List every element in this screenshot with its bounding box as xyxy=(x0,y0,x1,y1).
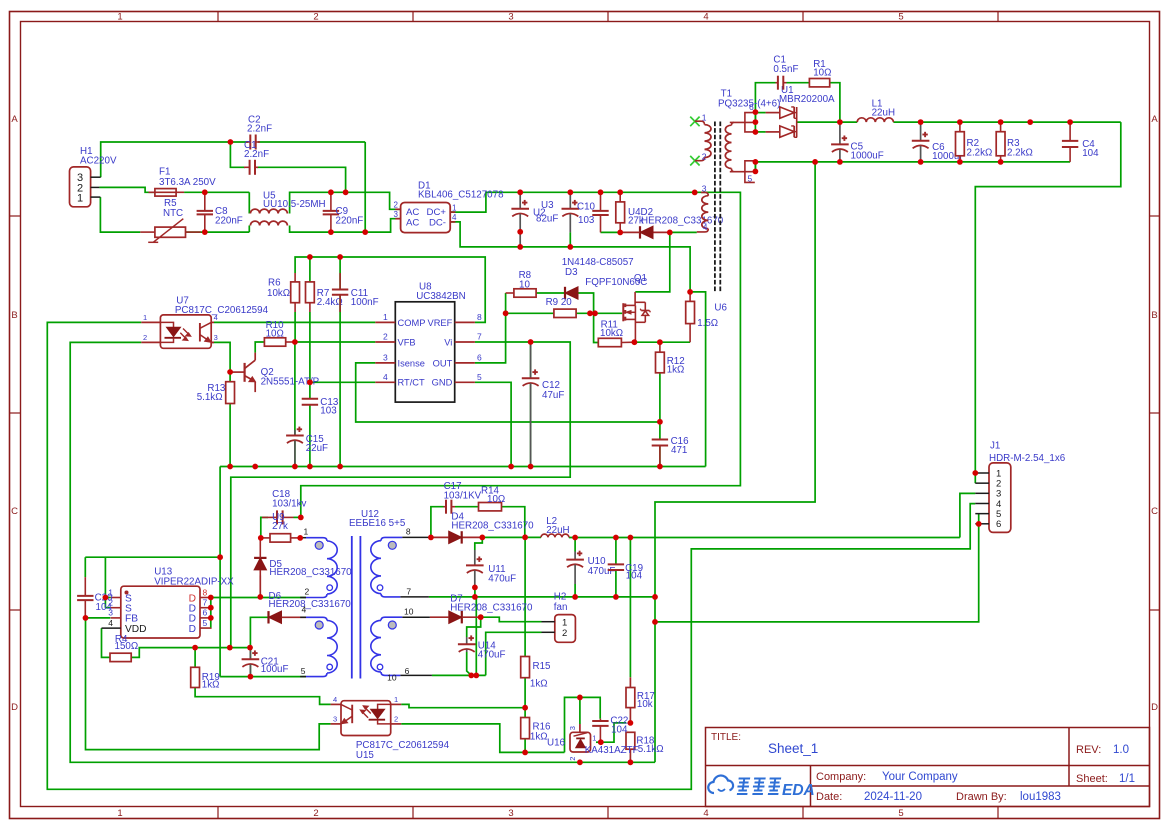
wire U16 ref column xyxy=(579,697,581,724)
svg-text:2: 2 xyxy=(143,333,147,342)
capacitor C11 100nF xyxy=(339,273,341,290)
connector J1 HDR-M-2.54_1x6 xyxy=(989,463,1011,533)
wire VFB line xyxy=(295,341,375,343)
svg-text:7: 7 xyxy=(406,586,411,596)
wire C21 / U12 pin5 rail xyxy=(220,676,306,678)
transistor Q2 2N5551 xyxy=(244,363,246,382)
svg-text:2: 2 xyxy=(562,628,567,639)
svg-text:2: 2 xyxy=(305,587,310,597)
junction dots secondary output area xyxy=(428,535,434,541)
svg-text:lou1983: lou1983 xyxy=(1020,791,1061,803)
wire Vcc line U8 pin7 to aux supply xyxy=(231,342,570,648)
svg-text:1000uF: 1000uF xyxy=(851,150,884,161)
junction dots controller area xyxy=(503,310,509,316)
svg-text:22uF: 22uF xyxy=(306,443,328,454)
svg-text:VIPER22ADIP-XX: VIPER22ADIP-XX xyxy=(154,576,234,587)
wire GND drop to C21 rail xyxy=(219,467,221,677)
T1 primary winding pins 3-4 xyxy=(701,192,708,195)
svg-text:3: 3 xyxy=(214,333,218,342)
svg-text:5: 5 xyxy=(748,174,753,184)
svg-text:103/1KV: 103/1KV xyxy=(444,491,482,502)
diode D3 1N4148 xyxy=(564,287,566,299)
wire AC line top rail with C2/C1 branches xyxy=(101,142,248,177)
wire R15 column xyxy=(524,537,526,656)
svg-text:C: C xyxy=(11,506,18,517)
svg-text:MBR20200A: MBR20200A xyxy=(779,94,835,105)
dual diode U1 MBR20200A xyxy=(780,107,794,118)
svg-text:3: 3 xyxy=(333,715,337,724)
svg-text:D: D xyxy=(11,702,18,713)
svg-text:103/1kv: 103/1kv xyxy=(272,498,306,509)
svg-text:1: 1 xyxy=(117,808,122,819)
svg-text:104: 104 xyxy=(626,570,643,581)
U12 winding pin4-5 xyxy=(300,616,306,618)
wire AC neutral rail to bridge xyxy=(100,197,140,232)
svg-text:10k: 10k xyxy=(637,699,653,710)
wire U15 pin1 to divider tap xyxy=(401,704,525,707)
svg-text:VDD: VDD xyxy=(125,624,147,635)
resistor R8 10 xyxy=(506,292,514,294)
junction dots T1 secondary / output filter xyxy=(753,109,759,115)
svg-text:5: 5 xyxy=(898,12,903,23)
wire control GND rail xyxy=(220,466,705,468)
wire secondary GND drop xyxy=(655,162,815,762)
shunt regulator U16 KA431 xyxy=(570,732,591,752)
wire U7 pin3 to R13 xyxy=(211,342,230,381)
svg-text:4: 4 xyxy=(703,808,708,819)
wire R7 column xyxy=(309,257,311,282)
svg-text:U6: U6 xyxy=(714,302,727,313)
junction dots TL431 / opto area xyxy=(522,705,528,711)
connector H1 AC220V xyxy=(70,167,91,207)
svg-text:103: 103 xyxy=(578,215,595,226)
JLCEDA logo xyxy=(708,776,733,793)
svg-text:0.5nF: 0.5nF xyxy=(773,64,798,75)
svg-text:6: 6 xyxy=(405,666,410,676)
svg-text:1kΩ: 1kΩ xyxy=(202,679,220,690)
svg-text:470uF: 470uF xyxy=(488,574,516,585)
resistor U9 27k feedback xyxy=(270,534,291,542)
svg-text:10: 10 xyxy=(387,672,397,682)
IC U13 VIPER22ADIP xyxy=(121,586,200,638)
svg-text:AC: AC xyxy=(406,207,419,218)
svg-text:1kΩ: 1kΩ xyxy=(530,731,548,742)
svg-text:2.2kΩ: 2.2kΩ xyxy=(1007,148,1033,159)
wire R13 bottom xyxy=(229,404,231,467)
svg-text:1kΩ: 1kΩ xyxy=(667,364,685,375)
wire C17 R14 snubber xyxy=(431,507,444,538)
wire net DC- xyxy=(450,222,690,292)
capacitor C20 104 xyxy=(84,577,86,596)
IC U8 UC3842BN xyxy=(395,302,454,402)
svg-text:PC817C_C20612594: PC817C_C20612594 xyxy=(175,305,269,316)
T1 core xyxy=(714,122,716,292)
wire U1 anode leads xyxy=(755,112,765,114)
svg-text:1: 1 xyxy=(143,313,147,322)
svg-text:1kΩ: 1kΩ xyxy=(530,678,548,689)
svg-text:Sheet_1: Sheet_1 xyxy=(768,741,818,756)
svg-text:Drawn By:: Drawn By: xyxy=(956,791,1007,803)
svg-text:6: 6 xyxy=(996,519,1001,530)
wire U13 D pins tie / U12 pin2 xyxy=(211,597,306,599)
svg-text:150Ω: 150Ω xyxy=(115,641,139,652)
svg-text:2: 2 xyxy=(313,808,318,819)
capacitor C19 104 xyxy=(615,563,617,565)
svg-text:2: 2 xyxy=(313,12,318,23)
svg-text:OUT: OUT xyxy=(433,358,453,368)
svg-text:10Ω: 10Ω xyxy=(813,67,831,78)
wire C15 column xyxy=(294,342,296,436)
svg-text:5.1kΩ: 5.1kΩ xyxy=(197,392,223,403)
svg-text:Sheet:: Sheet: xyxy=(1076,773,1108,785)
wire D7 to H2 pin1 xyxy=(481,617,542,622)
svg-text:A: A xyxy=(1151,114,1158,125)
wire AC fused rail to bridge xyxy=(99,187,154,192)
svg-text:Vi: Vi xyxy=(444,337,452,347)
svg-text:4: 4 xyxy=(703,222,708,232)
svg-text:Your Company: Your Company xyxy=(882,771,958,783)
resistor R4 150 xyxy=(110,653,131,661)
wire U13 VDD to R4 xyxy=(102,628,111,657)
U12 winding pin10-6 xyxy=(402,616,430,618)
wire +V low rail after L2 xyxy=(569,537,960,539)
svg-text:2024-11-20: 2024-11-20 xyxy=(864,791,922,803)
svg-text:10Ω: 10Ω xyxy=(487,494,505,505)
capacitor C1 0.5nF snubber xyxy=(776,82,778,84)
svg-text:1.0: 1.0 xyxy=(1113,744,1129,756)
svg-text:10: 10 xyxy=(404,606,414,616)
capacitor C9 220nF xyxy=(330,192,332,211)
svg-text:B: B xyxy=(11,310,17,321)
wire aux source rail xyxy=(85,556,220,558)
wire R19 top xyxy=(194,648,196,668)
svg-text:1: 1 xyxy=(394,695,398,704)
svg-text:1: 1 xyxy=(452,203,457,212)
thermistor R5 NTC xyxy=(140,231,155,233)
svg-text:1.5Ω: 1.5Ω xyxy=(697,318,718,329)
resistor R13 5.1k xyxy=(226,382,235,404)
resistor U6 1.5ohm sense xyxy=(689,292,691,302)
resistor R11 10k gate xyxy=(598,338,621,346)
svg-text:5: 5 xyxy=(301,666,306,676)
svg-text:UC3842BN: UC3842BN xyxy=(416,291,466,302)
inductor L2 22uH xyxy=(541,534,569,537)
svg-text:COMP: COMP xyxy=(398,318,426,328)
resistor R6 10k xyxy=(291,282,300,303)
capacitor U14 470uF xyxy=(466,637,468,644)
transistor Q1 FQPF10N60C mosfet xyxy=(622,303,624,321)
resistor U4 27k snubber xyxy=(619,192,621,202)
svg-text:47uF: 47uF xyxy=(542,390,564,401)
svg-text:KBL406_C5127078: KBL406_C5127078 xyxy=(418,190,504,201)
wire D3 to R11 xyxy=(578,293,598,343)
wire U14 bottom xyxy=(467,652,472,675)
svg-text:2.2nF: 2.2nF xyxy=(244,149,269,160)
resistor R19 1k xyxy=(191,667,200,687)
capacitor C5 1000uF xyxy=(839,122,841,144)
capacitor C13 103 xyxy=(309,398,311,400)
svg-text:22uH: 22uH xyxy=(546,525,569,536)
svg-text:8: 8 xyxy=(203,587,208,597)
wire R8/R9 node riser xyxy=(505,293,507,313)
capacitor C22 104 xyxy=(599,719,601,721)
diode D5 HER208 xyxy=(254,557,266,559)
svg-text:7: 7 xyxy=(203,598,208,608)
title block xyxy=(706,728,1150,807)
svg-text:3: 3 xyxy=(394,210,399,219)
T1 secondary winding pins 6/5 xyxy=(730,121,755,123)
svg-text:HER208_C331670: HER208_C331670 xyxy=(269,599,352,610)
svg-text:EEБE16 5+5: EEБE16 5+5 xyxy=(349,518,406,529)
wire C19 column xyxy=(615,538,617,565)
bridge rectifier D1 KBL406 xyxy=(401,203,451,233)
resistor R15 1k xyxy=(521,657,530,678)
svg-text:3: 3 xyxy=(702,183,707,193)
wire U8 OUT pin6 xyxy=(475,313,506,363)
svg-text:27k: 27k xyxy=(272,521,288,532)
svg-text:471: 471 xyxy=(671,445,687,456)
svg-text:HER208_C331670: HER208_C331670 xyxy=(641,215,724,226)
svg-text:103: 103 xyxy=(320,405,337,416)
wire R6 bottom xyxy=(294,312,296,342)
wire D6 to C21 node xyxy=(250,617,268,647)
capacitor C12 47uF xyxy=(530,342,532,379)
wire net DC+ xyxy=(301,192,741,517)
wire D5 anode column xyxy=(259,576,261,597)
svg-text:C: C xyxy=(1151,506,1158,517)
wire D7 to U14 xyxy=(467,617,481,637)
svg-text:DC+: DC+ xyxy=(427,207,447,218)
optocoupler U7 PC817C xyxy=(160,315,211,348)
resistor R3 2.2k xyxy=(1000,122,1002,132)
wire pin6 rail to H2 pin2 xyxy=(432,674,486,676)
svg-text:1: 1 xyxy=(562,618,567,629)
wire C16 bottom xyxy=(659,447,661,467)
capacitor C4 104 xyxy=(1069,122,1071,141)
wire snubber cap to 27k bottom xyxy=(601,231,621,233)
wire R12 bottom to C16 xyxy=(659,373,661,439)
wire U13 FB net to U15 pin3 xyxy=(86,617,111,619)
wire J1 pins1-2 tie xyxy=(974,473,976,483)
capacitor U2/U3 82uF bus xyxy=(519,192,521,209)
wire C11 column xyxy=(339,257,341,290)
svg-text:2: 2 xyxy=(394,715,398,724)
svg-text:GND: GND xyxy=(432,378,453,388)
wire U8 GND pin5 xyxy=(475,382,511,466)
svg-text:5: 5 xyxy=(203,618,208,628)
svg-text:10: 10 xyxy=(519,279,530,290)
resistor R18 5.1k xyxy=(626,732,635,749)
svg-text:5: 5 xyxy=(477,372,482,382)
svg-text:4: 4 xyxy=(108,618,113,628)
svg-text:1: 1 xyxy=(383,312,388,322)
svg-text:1: 1 xyxy=(592,734,596,743)
svg-text:R6: R6 xyxy=(268,277,281,288)
svg-text:100nF: 100nF xyxy=(351,297,379,308)
svg-text:A: A xyxy=(11,114,18,125)
svg-text:D: D xyxy=(189,624,196,635)
capacitor C18 103/1kv xyxy=(262,516,277,518)
svg-text:1: 1 xyxy=(77,193,83,205)
wire R9 to Q1 gate xyxy=(576,312,622,314)
resistor R1 10 xyxy=(809,79,829,87)
svg-text:3: 3 xyxy=(383,352,388,362)
junction dots control GND rail xyxy=(227,464,233,470)
svg-text:TITLE:: TITLE: xyxy=(711,732,741,743)
svg-text:4: 4 xyxy=(452,213,457,222)
capacitor U11 470uF xyxy=(474,550,476,565)
capacitor C2 2.2nF xyxy=(246,141,250,143)
wire VREF rail xyxy=(295,257,485,322)
svg-text:Date:: Date: xyxy=(816,791,842,803)
svg-text:1: 1 xyxy=(117,12,122,23)
wire R15 R16 junction xyxy=(524,678,526,718)
svg-text:4: 4 xyxy=(383,372,388,382)
wire J1 pin4 to bottom rail to opto U7 pin1 xyxy=(47,322,975,789)
T1 winding pins 1-2 with no-connect marks xyxy=(690,117,699,127)
svg-text:7: 7 xyxy=(477,332,482,342)
svg-text:82uF: 82uF xyxy=(536,213,558,224)
resistor R2 2.2k xyxy=(959,122,961,132)
resistor R16 1k xyxy=(521,718,530,739)
connector H2 fan xyxy=(555,615,576,643)
svg-text:10Ω: 10Ω xyxy=(266,328,284,339)
svg-text:EDA: EDA xyxy=(782,782,815,799)
svg-text:3: 3 xyxy=(508,808,513,819)
svg-text:HDR-M-2.54_1x6: HDR-M-2.54_1x6 xyxy=(989,453,1066,464)
svg-text:8: 8 xyxy=(406,527,411,537)
svg-text:2.2kΩ: 2.2kΩ xyxy=(967,148,993,159)
svg-text:104: 104 xyxy=(96,602,113,613)
svg-text:2: 2 xyxy=(702,152,707,162)
svg-text:Company:: Company: xyxy=(816,771,866,783)
svg-text:FQPF10N60C: FQPF10N60C xyxy=(585,277,647,288)
svg-text:3T6.3A 250V: 3T6.3A 250V xyxy=(159,177,216,188)
svg-text:R15: R15 xyxy=(533,661,552,672)
wire R19 bottom to U15 pin4 xyxy=(195,688,331,705)
wire winding center tie xyxy=(475,597,477,676)
inductor L1 22uH xyxy=(857,118,893,122)
wire R8 to D3 xyxy=(536,292,565,294)
wire TL431 anode rail from U7 pin2 xyxy=(70,342,655,762)
U12 winding pin8-7 xyxy=(402,536,431,538)
svg-text:REV:: REV: xyxy=(1076,744,1101,756)
svg-text:HER208_C331670: HER208_C331670 xyxy=(269,567,352,578)
svg-text:VREF: VREF xyxy=(428,318,453,328)
capacitor C6 1000uF xyxy=(920,122,922,141)
capacitor C10 bus xyxy=(569,192,571,209)
svg-text:220nF: 220nF xyxy=(336,216,364,227)
svg-text:4: 4 xyxy=(703,12,708,23)
wire U10 column xyxy=(574,538,576,552)
wire secondary GND to J1 pins 5-6 xyxy=(655,514,979,622)
resistor R17 10k xyxy=(626,688,635,708)
svg-text:AC: AC xyxy=(406,217,419,228)
wire R4 to aux Vcc node xyxy=(131,648,250,658)
svg-text:10kΩ: 10kΩ xyxy=(600,328,623,339)
capacitor C1 2.2nF (X-cap) xyxy=(244,166,250,168)
svg-text:HER208_C331670: HER208_C331670 xyxy=(450,602,533,613)
diode D2 HER208 xyxy=(639,226,641,238)
wire U15 pin2 to R16 bottom and TL431 ref xyxy=(401,724,564,753)
capacitor C17 103/1KV xyxy=(444,506,447,508)
wire C21 column xyxy=(249,648,251,660)
svg-text:Isense: Isense xyxy=(398,358,425,368)
svg-text:2.4kΩ: 2.4kΩ xyxy=(317,297,343,308)
capacitor U10 470uF xyxy=(574,552,576,560)
svg-text:5.1kΩ: 5.1kΩ xyxy=(638,744,664,755)
svg-text:NTC: NTC xyxy=(163,208,183,219)
svg-text:470uF: 470uF xyxy=(478,650,506,661)
wire U11 top jog xyxy=(475,537,483,550)
capacitor C21 100uF xyxy=(249,648,251,660)
wire output GND rail C5- xyxy=(754,162,756,172)
svg-text:UU10.5-25MH: UU10.5-25MH xyxy=(263,199,326,210)
svg-text:D: D xyxy=(1151,702,1158,713)
resistor R14 10 xyxy=(479,503,502,511)
optocoupler U15 PC817C xyxy=(341,701,391,736)
svg-text:HER208_C331670: HER208_C331670 xyxy=(451,520,534,531)
svg-text:AC220V: AC220V xyxy=(80,156,117,167)
capacitor C8 220nF xyxy=(204,192,206,211)
svg-text:KA431AZTF: KA431AZTF xyxy=(585,745,639,756)
wire R17 R18 junction xyxy=(629,708,631,723)
svg-text:B: B xyxy=(1151,310,1157,321)
svg-text:2: 2 xyxy=(394,201,399,210)
diode D7 HER208 xyxy=(449,611,462,623)
junction dots DC bus and snubber xyxy=(517,189,523,195)
wire COMP line xyxy=(214,321,375,323)
svg-text:2: 2 xyxy=(383,332,388,342)
common-mode choke U5 xyxy=(250,209,287,213)
resistor R9 20 xyxy=(554,309,576,317)
svg-text:10kΩ: 10kΩ xyxy=(267,288,290,299)
wire U11 bottom stub xyxy=(474,587,476,597)
wire C18 27k feedback xyxy=(261,517,268,538)
svg-text:3: 3 xyxy=(508,12,513,23)
wire R18 bottom stub xyxy=(629,749,631,762)
capacitor C16 471 xyxy=(659,439,661,440)
svg-text:J1: J1 xyxy=(990,441,1000,452)
wire Isense line xyxy=(356,363,660,422)
svg-text:fan: fan xyxy=(554,602,568,613)
diode D6 HER208 xyxy=(267,611,269,623)
junction dots primary AC side xyxy=(228,139,234,145)
svg-text:VFB: VFB xyxy=(398,337,416,347)
svg-text:2: 2 xyxy=(568,757,577,761)
svg-text:D3: D3 xyxy=(565,267,578,278)
svg-text:U15: U15 xyxy=(356,750,375,761)
resistor R10 10 xyxy=(264,338,285,346)
svg-text:4: 4 xyxy=(302,604,307,614)
svg-text:2.2nF: 2.2nF xyxy=(247,124,272,135)
U12 winding pin1-2 xyxy=(300,537,306,539)
wire Q1 source row xyxy=(634,341,690,343)
wire RT/CT line xyxy=(310,381,375,383)
svg-text:4: 4 xyxy=(333,695,337,704)
svg-text:6: 6 xyxy=(203,608,208,618)
fuse F1 xyxy=(149,191,155,193)
resistor R7 2.4k xyxy=(306,282,315,303)
svg-text:1: 1 xyxy=(304,527,309,537)
svg-text:1/1: 1/1 xyxy=(1119,773,1135,785)
svg-text:R9 20: R9 20 xyxy=(546,297,573,308)
capacitor snubber 103 xyxy=(600,192,602,211)
svg-text:3: 3 xyxy=(568,726,577,730)
capacitor C15 22uF xyxy=(294,430,296,436)
svg-text:104: 104 xyxy=(611,724,628,735)
svg-text:8: 8 xyxy=(477,312,482,322)
